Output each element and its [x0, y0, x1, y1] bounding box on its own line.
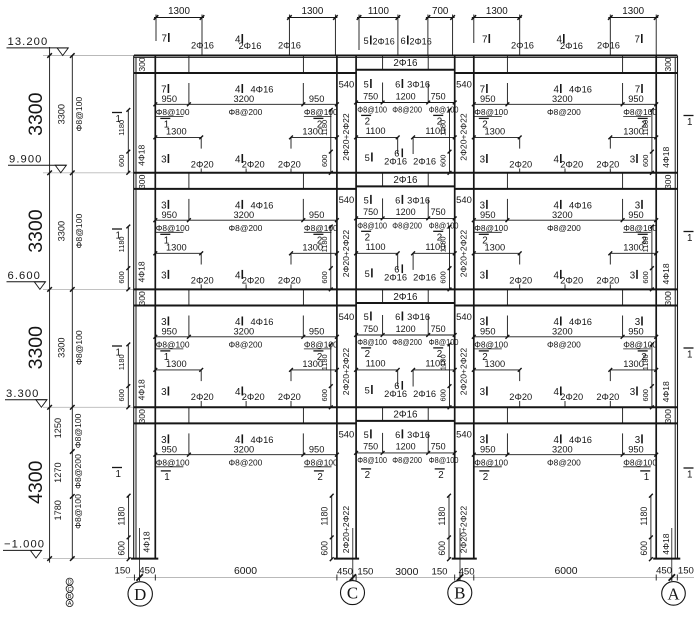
svg-text:6: 6 [395, 430, 400, 440]
svg-text:600: 600 [320, 155, 329, 167]
column stirrup dims story 2 [117, 225, 654, 292]
svg-text:1780: 1780 [53, 500, 63, 520]
section marks story 3 outside frame [112, 346, 694, 360]
svg-text:3200: 3200 [552, 327, 573, 337]
svg-text:2Φ20+2Φ22: 2Φ20+2Φ22 [459, 230, 469, 278]
svg-text:3Φ16: 3Φ16 [407, 195, 430, 205]
svg-text:300: 300 [663, 409, 673, 424]
svg-text:750: 750 [363, 442, 378, 452]
svg-text:540: 540 [456, 78, 472, 89]
svg-text:750: 750 [431, 442, 446, 452]
svg-text:600: 600 [641, 271, 650, 283]
svg-text:1100: 1100 [425, 126, 445, 136]
section marks story 1 outside frame [112, 113, 694, 128]
svg-text:6: 6 [401, 36, 406, 46]
svg-text:600: 600 [117, 389, 126, 401]
svg-text:950: 950 [162, 327, 178, 337]
svg-text:2Φ20+2Φ22: 2Φ20+2Φ22 [341, 506, 351, 554]
svg-text:2: 2 [317, 472, 322, 483]
svg-text:1200: 1200 [396, 207, 416, 217]
svg-text:6000: 6000 [234, 566, 257, 577]
svg-text:2Φ16: 2Φ16 [410, 37, 432, 47]
svg-text:2Φ20: 2Φ20 [596, 276, 619, 286]
level extension lines [43, 56, 134, 559]
svg-text:3: 3 [161, 155, 167, 166]
svg-text:950: 950 [309, 445, 325, 455]
svg-text:750: 750 [363, 324, 378, 334]
svg-text:6: 6 [395, 312, 400, 322]
svg-text:2Φ20: 2Φ20 [509, 160, 532, 170]
svg-text:3Φ16: 3Φ16 [407, 312, 430, 322]
svg-text:3000: 3000 [395, 567, 418, 578]
column B [455, 56, 474, 559]
svg-text:3200: 3200 [234, 445, 255, 455]
svg-text:540: 540 [456, 311, 472, 322]
svg-text:3300: 3300 [25, 326, 47, 370]
span D-C story 3 beam callouts [153, 316, 338, 408]
svg-text:3: 3 [630, 270, 636, 281]
svg-text:Φ8@100: Φ8@100 [73, 413, 83, 448]
svg-text:Φ8@100: Φ8@100 [156, 223, 190, 233]
svg-text:4: 4 [235, 155, 241, 166]
svg-text:4: 4 [554, 387, 560, 398]
svg-text:1180: 1180 [641, 354, 650, 370]
svg-text:2Φ20+2Φ22: 2Φ20+2Φ22 [459, 113, 469, 161]
svg-text:6: 6 [395, 80, 400, 90]
svg-text:600: 600 [117, 271, 126, 283]
svg-text:950: 950 [628, 327, 644, 337]
column stirrup zone dimension chain (left) [53, 53, 84, 561]
svg-text:D: D [134, 585, 146, 604]
svg-text:3200: 3200 [234, 94, 255, 104]
story height dimension chain [25, 47, 52, 563]
column C [337, 56, 356, 559]
svg-text:4Φ16: 4Φ16 [569, 85, 592, 95]
bottom span dimensions [114, 566, 694, 581]
svg-text:3200: 3200 [234, 327, 255, 337]
svg-text:2Φ20: 2Φ20 [242, 160, 265, 170]
svg-text:1300: 1300 [166, 127, 187, 137]
svg-text:750: 750 [431, 207, 446, 217]
svg-text:Φ8@200: Φ8@200 [392, 221, 422, 230]
svg-text:3300: 3300 [57, 221, 67, 241]
svg-text:1250: 1250 [53, 418, 63, 438]
svg-text:5: 5 [364, 430, 369, 440]
svg-text:950: 950 [628, 94, 644, 104]
middle beam top bars 2&#934;16 label level 9.900 [393, 175, 418, 186]
svg-text:300: 300 [663, 174, 673, 189]
level marker 6.600 [7, 270, 46, 289]
svg-text:450: 450 [656, 566, 672, 577]
svg-text:13.200: 13.200 [8, 36, 49, 48]
svg-text:Φ8@100: Φ8@100 [429, 338, 459, 347]
svg-text:1180: 1180 [320, 236, 329, 252]
svg-text:950: 950 [480, 94, 496, 104]
svg-text:600: 600 [117, 155, 126, 167]
svg-text:1300: 1300 [486, 6, 508, 17]
svg-text:2Φ20: 2Φ20 [191, 276, 214, 286]
svg-text:4Φ16: 4Φ16 [251, 85, 274, 95]
svg-text:4Φ18: 4Φ18 [136, 261, 146, 282]
svg-text:2Φ16: 2Φ16 [278, 41, 301, 51]
svg-text:2Φ20: 2Φ20 [278, 392, 301, 402]
svg-text:4Φ18: 4Φ18 [136, 144, 146, 165]
axis bubble B [448, 581, 472, 605]
svg-text:4Φ18: 4Φ18 [142, 531, 152, 552]
svg-text:5: 5 [365, 269, 370, 279]
svg-text:7: 7 [635, 85, 640, 96]
svg-text:2Φ20: 2Φ20 [560, 276, 583, 286]
svg-text:Φ8@100: Φ8@100 [304, 339, 338, 349]
svg-text:540: 540 [456, 194, 472, 205]
svg-text:540: 540 [339, 429, 355, 440]
svg-text:750: 750 [363, 91, 378, 101]
svg-text:9.900: 9.900 [9, 154, 43, 166]
svg-text:2Φ16: 2Φ16 [413, 389, 436, 399]
svg-text:2Φ20: 2Φ20 [191, 160, 214, 170]
svg-text:4Φ16: 4Φ16 [251, 200, 274, 210]
svg-text:600: 600 [437, 541, 447, 556]
svg-text:150: 150 [114, 566, 130, 577]
svg-text:Φ8@100: Φ8@100 [74, 214, 84, 249]
svg-text:1300: 1300 [622, 6, 644, 17]
svg-text:2Φ16: 2Φ16 [373, 37, 395, 47]
svg-text:2Φ16: 2Φ16 [393, 175, 418, 186]
svg-text:4: 4 [235, 387, 241, 398]
column axis extension lines to bubbles [140, 528, 672, 581]
svg-text:1300: 1300 [166, 359, 187, 369]
svg-text:3: 3 [635, 317, 641, 328]
svg-text:950: 950 [162, 210, 178, 220]
svg-text:950: 950 [309, 94, 325, 104]
svg-text:1180: 1180 [320, 354, 329, 370]
svg-text:600: 600 [117, 541, 127, 556]
svg-text:Φ8@200: Φ8@200 [392, 338, 422, 347]
svg-text:Φ8@200: Φ8@200 [547, 339, 581, 349]
svg-text:4Φ18: 4Φ18 [136, 379, 146, 400]
svg-text:750: 750 [431, 324, 446, 334]
svg-text:3200: 3200 [234, 210, 255, 220]
svg-text:540: 540 [456, 429, 472, 440]
svg-text:C: C [68, 587, 72, 593]
svg-text:1100: 1100 [425, 359, 445, 369]
svg-text:4Φ18: 4Φ18 [661, 381, 671, 402]
svg-text:3Φ16: 3Φ16 [407, 80, 430, 90]
svg-text:2Φ20+2Φ22: 2Φ20+2Φ22 [341, 230, 351, 278]
svg-text:950: 950 [628, 210, 644, 220]
svg-text:Φ8@100: Φ8@100 [474, 339, 508, 349]
svg-text:3: 3 [480, 155, 486, 166]
svg-text:7: 7 [635, 35, 640, 46]
svg-text:2Φ16: 2Φ16 [393, 292, 418, 303]
svg-text:2Φ20: 2Φ20 [596, 160, 619, 170]
svg-text:1180: 1180 [641, 236, 650, 252]
svg-text:Φ8@200: Φ8@200 [547, 457, 581, 467]
svg-text:1200: 1200 [396, 91, 416, 101]
middle beam top bars 2&#934;16 label level 3.300 [393, 410, 418, 421]
svg-text:−1.000: −1.000 [4, 539, 45, 551]
svg-text:3: 3 [630, 155, 636, 166]
svg-text:950: 950 [162, 94, 178, 104]
svg-text:Φ8@100: Φ8@100 [74, 97, 84, 132]
svg-text:600: 600 [320, 271, 329, 283]
svg-text:Φ8@200: Φ8@200 [229, 457, 263, 467]
svg-text:1300: 1300 [302, 6, 324, 17]
svg-text:600: 600 [320, 541, 330, 556]
svg-text:2Φ20: 2Φ20 [242, 276, 265, 286]
svg-text:540: 540 [339, 311, 355, 322]
svg-text:6000: 6000 [554, 566, 577, 577]
svg-text:Φ8@100: Φ8@100 [73, 494, 83, 529]
svg-text:1: 1 [687, 233, 692, 244]
section marks story 2 outside frame [112, 229, 694, 244]
svg-text:3: 3 [161, 270, 167, 281]
svg-text:300: 300 [663, 57, 673, 72]
svg-text:Φ8@100: Φ8@100 [623, 457, 657, 467]
svg-text:2Φ16: 2Φ16 [393, 58, 418, 69]
svg-text:7: 7 [162, 34, 167, 45]
svg-text:4Φ18: 4Φ18 [661, 146, 671, 167]
svg-text:2Φ20: 2Φ20 [596, 392, 619, 402]
svg-text:950: 950 [480, 445, 496, 455]
svg-text:Φ8@200: Φ8@200 [547, 223, 581, 233]
svg-text:7: 7 [482, 35, 487, 46]
svg-text:2Φ20: 2Φ20 [560, 392, 583, 402]
level marker 3.300 [5, 388, 47, 407]
svg-text:450: 450 [337, 567, 353, 578]
svg-text:3: 3 [480, 387, 486, 398]
svg-text:540: 540 [339, 194, 355, 205]
svg-text:1: 1 [687, 349, 692, 360]
beam at level 9.900 [134, 173, 677, 189]
svg-text:950: 950 [309, 327, 325, 337]
svg-text:1: 1 [116, 230, 121, 241]
svg-text:600: 600 [641, 155, 650, 167]
svg-text:4Φ16: 4Φ16 [569, 317, 592, 327]
svg-text:150: 150 [357, 567, 373, 578]
column stirrup dims story 3 [117, 343, 654, 410]
svg-text:Φ8@100: Φ8@100 [156, 107, 190, 117]
svg-text:Φ8@100: Φ8@100 [357, 105, 387, 114]
svg-text:750: 750 [363, 207, 378, 217]
span B-A story 3 beam callouts [472, 316, 658, 408]
svg-text:600: 600 [438, 271, 447, 283]
svg-text:950: 950 [628, 445, 644, 455]
svg-text:2Φ16: 2Φ16 [413, 272, 436, 282]
beam at level 13.200 [134, 56, 677, 74]
svg-text:Φ8@100: Φ8@100 [74, 330, 84, 365]
svg-text:1100: 1100 [366, 242, 386, 252]
svg-text:150: 150 [431, 567, 447, 578]
svg-text:2Φ16: 2Φ16 [597, 41, 620, 51]
svg-text:Φ8@100: Φ8@100 [304, 223, 338, 233]
svg-text:950: 950 [480, 327, 496, 337]
svg-text:600: 600 [639, 541, 649, 556]
svg-text:3.300: 3.300 [6, 388, 40, 400]
svg-text:1180: 1180 [320, 507, 330, 526]
svg-text:2Φ20: 2Φ20 [191, 392, 214, 402]
svg-text:300: 300 [137, 174, 147, 189]
svg-text:2Φ16: 2Φ16 [239, 41, 262, 51]
svg-text:300: 300 [137, 409, 147, 424]
svg-text:1200: 1200 [396, 442, 416, 452]
span D-C story 1 beam callouts [153, 83, 338, 173]
span D-C story 2 beam callouts [153, 199, 338, 290]
column A [656, 56, 677, 559]
svg-text:1300: 1300 [485, 243, 506, 253]
svg-text:1180: 1180 [320, 120, 329, 136]
column D [134, 56, 156, 559]
svg-text:1: 1 [644, 472, 649, 483]
svg-text:Φ8@100: Φ8@100 [156, 457, 190, 467]
span C-B story 4 beam callouts [339, 429, 472, 482]
svg-text:950: 950 [480, 210, 496, 220]
svg-text:2Φ16: 2Φ16 [384, 272, 407, 282]
svg-text:5: 5 [364, 36, 369, 46]
svg-text:300: 300 [137, 291, 147, 306]
svg-text:2Φ20: 2Φ20 [509, 276, 532, 286]
span C-B story 3 beam callouts [339, 311, 472, 399]
svg-text:450: 450 [459, 567, 475, 578]
svg-text:5: 5 [365, 386, 370, 396]
svg-text:1: 1 [116, 114, 121, 125]
svg-text:3200: 3200 [552, 445, 573, 455]
svg-text:Φ8@200: Φ8@200 [229, 339, 263, 349]
svg-text:1: 1 [116, 347, 121, 358]
svg-text:4300: 4300 [25, 460, 47, 504]
svg-text:1200: 1200 [396, 324, 416, 334]
svg-text:4: 4 [554, 155, 560, 166]
svg-text:600: 600 [438, 155, 447, 167]
svg-text:5: 5 [364, 195, 369, 205]
svg-text:1300: 1300 [485, 359, 506, 369]
svg-text:3: 3 [635, 435, 641, 446]
svg-text:D: D [68, 580, 72, 586]
svg-text:5: 5 [364, 80, 369, 90]
axis bubble D [128, 582, 152, 606]
svg-text:Φ8@200: Φ8@200 [229, 223, 263, 233]
svg-text:3200: 3200 [552, 210, 573, 220]
column bottom stirrup dims at foundation [117, 494, 653, 561]
svg-text:1300: 1300 [485, 127, 506, 137]
beam at level 3.300 [134, 407, 677, 423]
svg-text:Φ8@100: Φ8@100 [474, 107, 508, 117]
svg-text:C: C [347, 584, 358, 603]
column D rebar 4&#934;18 labels [136, 144, 671, 554]
svg-text:1300: 1300 [168, 6, 190, 17]
svg-text:1: 1 [687, 117, 692, 128]
svg-text:3300: 3300 [25, 92, 47, 136]
svg-text:2Φ16: 2Φ16 [393, 410, 418, 421]
svg-text:3300: 3300 [25, 209, 47, 253]
svg-text:Φ8@100: Φ8@100 [474, 223, 508, 233]
column stirrup dims story 1 [117, 108, 654, 175]
span D-C story 4 beam callouts [153, 433, 338, 483]
span C-B story 2 beam callouts [339, 194, 472, 282]
span B-A story 2 beam callouts [472, 199, 658, 290]
svg-text:1: 1 [164, 472, 169, 483]
level marker 13.200 [7, 36, 69, 55]
svg-text:700: 700 [432, 6, 449, 17]
svg-text:600: 600 [320, 389, 329, 401]
svg-text:4Φ16: 4Φ16 [251, 317, 274, 327]
svg-text:Φ8@100: Φ8@100 [357, 221, 387, 230]
top rebar cutoff dimensions [154, 6, 659, 55]
mini axis reference bubbles [66, 578, 73, 607]
svg-text:2Φ20+2Φ22: 2Φ20+2Φ22 [459, 348, 469, 396]
svg-text:4: 4 [554, 270, 560, 281]
svg-text:3: 3 [635, 200, 641, 211]
svg-text:1180: 1180 [117, 507, 127, 526]
svg-text:3Φ16: 3Φ16 [407, 430, 430, 440]
axis bubble C [341, 581, 365, 605]
svg-text:Φ8@100: Φ8@100 [429, 456, 459, 465]
svg-text:2Φ16: 2Φ16 [384, 157, 407, 167]
svg-text:540: 540 [339, 78, 355, 89]
beam at level 6.600 [134, 289, 677, 305]
svg-text:1100: 1100 [425, 242, 445, 252]
level marker 9.900 [8, 154, 66, 173]
svg-text:Φ8@200: Φ8@200 [229, 107, 263, 117]
svg-text:5: 5 [364, 312, 369, 322]
svg-text:Φ8@200: Φ8@200 [73, 454, 83, 489]
svg-text:1180: 1180 [641, 120, 650, 136]
svg-text:2Φ20+2Φ22: 2Φ20+2Φ22 [341, 348, 351, 396]
top bar labels above roof [162, 33, 642, 51]
svg-text:2Φ16: 2Φ16 [413, 157, 436, 167]
svg-text:3: 3 [480, 270, 486, 281]
svg-text:300: 300 [663, 291, 673, 306]
svg-text:950: 950 [162, 445, 178, 455]
svg-text:2Φ20: 2Φ20 [560, 160, 583, 170]
svg-text:Φ8@100: Φ8@100 [429, 221, 459, 230]
axis bubble A [662, 582, 686, 606]
svg-text:600: 600 [438, 389, 447, 401]
svg-text:2Φ20+2Φ22: 2Φ20+2Φ22 [341, 113, 351, 161]
svg-text:3: 3 [630, 387, 636, 398]
svg-text:3200: 3200 [552, 94, 573, 104]
svg-text:Φ8@200: Φ8@200 [547, 107, 581, 117]
span B-A story 1 beam callouts [472, 83, 658, 173]
svg-text:2Φ16: 2Φ16 [384, 389, 407, 399]
svg-text:4Φ16: 4Φ16 [569, 435, 592, 445]
svg-text:2Φ16: 2Φ16 [560, 41, 583, 51]
svg-text:2: 2 [438, 470, 443, 481]
svg-text:4Φ16: 4Φ16 [569, 200, 592, 210]
svg-text:1300: 1300 [166, 243, 187, 253]
svg-text:3: 3 [161, 387, 167, 398]
svg-text:1100: 1100 [368, 6, 390, 17]
svg-text:A: A [667, 584, 679, 603]
svg-text:3300: 3300 [57, 104, 67, 124]
svg-text:2Φ16: 2Φ16 [511, 41, 534, 51]
svg-text:4Φ18: 4Φ18 [661, 263, 671, 284]
span C-B story 1 beam callouts [339, 78, 472, 166]
svg-text:2Φ20: 2Φ20 [278, 160, 301, 170]
svg-text:Φ8@200: Φ8@200 [392, 105, 422, 114]
svg-text:950: 950 [309, 210, 325, 220]
svg-text:450: 450 [139, 566, 155, 577]
svg-text:1180: 1180 [639, 507, 649, 526]
svg-text:1100: 1100 [366, 126, 386, 136]
svg-text:600: 600 [641, 389, 650, 401]
svg-text:150: 150 [678, 566, 694, 577]
svg-text:Φ8@100: Φ8@100 [156, 339, 190, 349]
svg-text:2Φ20: 2Φ20 [242, 392, 265, 402]
svg-text:1: 1 [687, 469, 692, 480]
svg-text:2: 2 [483, 472, 488, 483]
svg-text:Φ8@100: Φ8@100 [429, 105, 459, 114]
